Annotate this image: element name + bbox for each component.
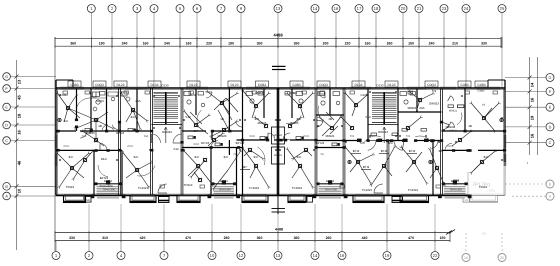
svg-text:240: 240 (429, 41, 435, 45)
wall y=140 seg14 (290, 139, 316, 141)
window left wall 2 (54, 154, 56, 166)
svg-text:G: G (549, 76, 552, 80)
grid bubble 2 (top) (108, 5, 116, 13)
grid line 23 stem (443, 13, 445, 89)
label box C0B3 x458 (458, 81, 471, 87)
wall y=112 seg16 (398, 111, 442, 113)
window top x290 (290, 86, 310, 88)
wall x=212 seg20 (211, 131, 213, 140)
door arc 8 (283, 133, 290, 139)
switch dots (59, 94, 61, 96)
label box C4B3 x475 (475, 81, 488, 87)
svg-text:4Y24: 4Y24 (63, 145, 69, 148)
svg-text:18: 18 (374, 6, 379, 11)
door arc 1 (100, 143, 107, 150)
grid line 21 stem (418, 13, 420, 89)
lamp L26 (350, 126, 353, 129)
grid line 7 stem (220, 13, 222, 89)
svg-text:14: 14 (313, 6, 318, 11)
party wall x=316 (314, 88, 316, 196)
grid line 18 stem (375, 13, 377, 89)
svg-text:D133: D133 (151, 83, 159, 87)
svg-text:21: 21 (417, 6, 422, 11)
row bubble F (right) (546, 87, 554, 95)
svg-text:M0921: M0921 (449, 110, 457, 113)
entrance 4 (x441.5-468) (442, 183, 469, 185)
wall x=94 seg3 (93, 150, 95, 195)
grid bubble 19 (bottom) (383, 252, 391, 260)
grid stem 1 bottom (55, 241, 57, 252)
door arc 21 (442, 125, 450, 130)
svg-text:200: 200 (323, 41, 329, 45)
dimension terminator line x=55 (54, 37, 56, 251)
grid bubble 12 (bottom) (237, 252, 245, 260)
balcony H faint (470, 196, 498, 203)
grid stem 22 bottom (434, 241, 436, 252)
lamp L28 (264, 124, 267, 127)
door arc 20 (316, 121, 323, 127)
svg-text:260: 260 (326, 236, 332, 240)
exterior wall left (55, 80, 57, 196)
label box C0B3 x255.5 (256, 81, 269, 87)
window top x440 (440, 86, 456, 88)
svg-text:(-): (-) (483, 232, 486, 236)
door arc 5 (173, 134, 182, 143)
row leader D left (10, 124, 56, 126)
grid bubble 5 (top) (176, 5, 184, 13)
lamp L10 (196, 164, 199, 167)
svg-text:C0Q3: C0Q3 (96, 99, 104, 103)
party wall x=278 (276, 88, 278, 196)
wall y=140 seg13 (278, 139, 284, 141)
grid stem 12 bottom (240, 241, 242, 252)
label box D123 x228 (228, 81, 241, 87)
grid bubble 16 (top) (332, 5, 340, 13)
svg-text:B7: B7 (243, 165, 247, 169)
svg-text:440: 440 (362, 236, 368, 240)
svg-text:B·g: B·g (432, 89, 437, 93)
grid bubble 16 (bottom) (338, 252, 346, 260)
wall x=76.5 seg5 (76, 88, 78, 120)
window top x186 (186, 86, 208, 88)
exterior wall left inner (56, 88, 58, 196)
grid line 3 stem (136, 13, 138, 89)
wall x=106.5 seg8 (106, 88, 108, 131)
lamp L20 (435, 166, 438, 169)
row bubble B right (faint) (546, 180, 554, 188)
svg-text:23: 23 (442, 6, 447, 11)
grid stem 4 bottom (120, 241, 122, 252)
svg-text:C123: C123 (189, 93, 196, 97)
bottom dimension line upper (55, 232, 450, 234)
grid bubble 24 (top) (462, 5, 470, 13)
svg-text:240: 240 (122, 41, 128, 45)
grid bubble 25 (top) (498, 5, 506, 13)
door arc 14 (206, 92, 212, 98)
svg-text:350: 350 (294, 41, 300, 45)
row bubble C (right) (546, 139, 554, 147)
wall y=150.4 seg5 (56, 149, 94, 151)
lamp L34 (458, 138, 461, 141)
grid bubble 25 bottom (faint) (498, 254, 506, 262)
label box C0B3 x68 (68, 81, 81, 87)
party wall x=182 (180, 88, 182, 196)
outlet underline marks (351, 153, 361, 155)
svg-text:B·F: B·F (484, 155, 489, 159)
svg-text:CMB3: CMB3 (289, 91, 297, 95)
wall y=150.4 seg22 (442, 149, 471, 151)
wall x=242.5 seg0 (242, 88, 244, 196)
bath fixtures unit3 (184, 92, 191, 96)
row leader A left (10, 195, 56, 197)
svg-text:330: 330 (481, 41, 487, 45)
svg-text:360: 360 (70, 41, 76, 45)
svg-text:M0921: M0921 (449, 130, 457, 133)
svg-text:18: 18 (17, 113, 22, 118)
svg-text:150: 150 (408, 41, 414, 45)
svg-text:DW923: DW923 (429, 102, 439, 106)
door arc 13 (90, 92, 96, 98)
row leader G right (505, 77, 546, 79)
svg-text:TC2421: TC2421 (362, 188, 373, 192)
grid line 20 stem (402, 13, 404, 89)
label box C0Q3 x317 (317, 81, 330, 87)
svg-text:4488: 4488 (275, 228, 283, 232)
svg-text:C: C (5, 139, 8, 143)
svg-text:TC2421: TC2421 (138, 186, 149, 190)
left dim ticks (15, 75, 19, 79)
stair landing left (152, 124, 183, 126)
wall y=131 seg2 (120, 130, 152, 132)
grid line 4 stem (153, 13, 155, 89)
svg-text:16: 16 (334, 6, 339, 11)
door arc 6 (211, 141, 218, 148)
exterior wall bottom (56, 195, 468, 197)
svg-text:420: 420 (140, 236, 146, 240)
svg-text:20A: 20A (144, 135, 149, 138)
balcony x242 (242, 196, 268, 203)
svg-text:4Y24: 4Y24 (249, 135, 255, 138)
grid stem 14 bottom (314, 241, 316, 252)
grid line 2 stem (111, 13, 113, 89)
window right wall 2 (503, 154, 505, 166)
wall y=147.5 seg8 (237, 147, 243, 149)
lamp L24 (418, 98, 421, 101)
label box D123 x385 (385, 81, 398, 87)
window bottom x401 (401, 194, 427, 196)
lamp L7 (194, 123, 197, 126)
svg-text:C0B3: C0B3 (292, 83, 300, 87)
svg-text:20: 20 (401, 6, 406, 11)
svg-text:1B: 1B (98, 124, 102, 128)
wall y=131 seg0 (56, 130, 76, 132)
svg-text:160: 160 (186, 41, 192, 45)
entrance door left core (158, 184, 167, 193)
svg-text:24: 24 (464, 256, 468, 260)
meter box right small (307, 197, 313, 203)
extra wiring runs (214, 98, 226, 110)
wall lamp 2 (429, 160, 432, 163)
svg-text:220: 220 (345, 41, 351, 45)
window top x95 (95, 86, 112, 88)
svg-text:C0Q3: C0Q3 (319, 83, 328, 87)
window top x60 (60, 86, 84, 88)
svg-text:330: 330 (69, 236, 75, 240)
lamp L11 (198, 178, 201, 181)
door arc 17 (451, 122, 455, 128)
wall y=140.5 seg19 (416, 140, 430, 142)
svg-text:t: t (527, 161, 528, 165)
grid bubble 20 (top) (399, 5, 407, 13)
svg-text:14: 14 (530, 82, 535, 87)
label box D123 x114 (114, 81, 127, 87)
svg-text:M3: M3 (86, 199, 90, 202)
balcony x177 (177, 196, 200, 203)
row bubble E (right) (546, 103, 554, 111)
lamp L23 (354, 103, 357, 106)
svg-text:20A: 20A (135, 99, 140, 103)
bath fixtures unit6 (318, 92, 325, 96)
svg-text:M0923: M0923 (258, 121, 267, 125)
svg-text:1B·F: 1B·F (101, 157, 107, 161)
svg-text:50×6=300: 50×6=300 (325, 189, 337, 192)
svg-text:360: 360 (294, 236, 300, 240)
grid line 13 stem (277, 13, 279, 89)
grid bubble 2 (bottom) (85, 252, 93, 260)
svg-text:· 1P1 ·: · 1P1 · (487, 189, 498, 193)
svg-text:50×6=300: 50×6=300 (99, 184, 112, 188)
svg-text:14: 14 (313, 253, 318, 258)
grid bubble 22 (bottom) (431, 252, 439, 260)
entry canopy left stair (159, 197, 170, 203)
svg-text:45: 45 (17, 95, 22, 100)
dimension ticks top band (54, 37, 56, 48)
row bubble A (left) (3, 192, 11, 200)
lamp L1 (66, 106, 69, 109)
wall y=140.5 seg17 (316, 140, 360, 142)
window bottom x355 (355, 194, 382, 196)
svg-text:TC919: TC919 (184, 183, 193, 187)
grid bubble 23 (top) (440, 5, 448, 13)
grid stem 19 bottom (386, 241, 388, 252)
wall x=264 seg12 (263, 88, 265, 118)
lamp L27 (406, 126, 409, 129)
grid line 14 stem (314, 13, 316, 89)
row bubble G (left) (3, 73, 11, 81)
row bubble A right (faint) (546, 192, 554, 200)
svg-text:C0B3: C0B3 (258, 83, 266, 87)
wiring runs with arrows (58, 94, 68, 108)
svg-text:B7·B: B7·B (409, 149, 415, 153)
grid line 5 stem (179, 13, 181, 89)
door leaf blobs rooms right (378, 139, 383, 142)
grid line 24 stem (465, 13, 467, 89)
door arc 3 (112, 125, 120, 130)
wall lamp 3 (58, 118, 61, 121)
row leader F left (10, 88, 56, 90)
shaft box M0921 center (272, 147, 285, 164)
grid bubble 7 (bottom) (160, 252, 168, 260)
grid bubble 1 (top) (87, 5, 95, 13)
lamp L33 (304, 148, 307, 151)
door arc 15 (319, 92, 325, 98)
lamp L19 (412, 160, 415, 163)
shaft box M0923 center (272, 127, 285, 144)
grid bubble 17 (top) (355, 5, 363, 13)
svg-text:50×6=300: 50×6=300 (450, 189, 462, 192)
balcony x353 (353, 196, 384, 203)
wall x=91 seg7 (90, 88, 92, 131)
wall y=140 seg12 (274, 139, 278, 141)
exterior wall bottom inner (56, 193, 468, 195)
wall lamp 4 (500, 118, 503, 121)
lamp L31 (212, 138, 215, 141)
window bottom x64 (64, 194, 85, 196)
wall y=147.5 seg7 (182, 147, 211, 149)
svg-text:310: 310 (102, 236, 108, 240)
grid bubble 4 (top) (150, 5, 158, 13)
svg-text:C123: C123 (361, 93, 368, 97)
svg-text:B·F: B·F (439, 149, 444, 153)
grid line 16 stem (335, 13, 337, 89)
svg-text:B·F: B·F (69, 155, 74, 159)
svg-text:D123: D123 (388, 83, 396, 87)
entrance door right core (374, 184, 383, 193)
lamp L13 (254, 164, 257, 167)
wall x=368 seg15 (367, 88, 369, 141)
door arc 19 (236, 121, 243, 127)
svg-text:13: 13 (276, 6, 281, 11)
window bottom x243 (243, 194, 267, 196)
lamp L17 (356, 160, 359, 163)
lamp L32 (248, 148, 251, 151)
svg-text:19: 19 (530, 115, 535, 120)
svg-text:D: D (5, 124, 8, 128)
svg-text:B·F: B·F (134, 155, 139, 159)
centerline symbol (272, 208, 286, 210)
bath fixtures unit4 (246, 92, 253, 96)
wall x=330 seg14 (329, 88, 331, 115)
exterior wall right (504, 80, 506, 162)
door arc 7 (268, 133, 275, 139)
grid line 1 stem (90, 13, 92, 89)
door arc 10 (394, 141, 402, 151)
svg-text:M3: M3 (465, 199, 469, 202)
svg-text:4Y24: 4Y24 (127, 145, 133, 148)
door label boxes mid right (402, 129, 408, 132)
svg-text:M0921: M0921 (408, 106, 417, 110)
window bottom x131 (131, 194, 155, 196)
wall y=131 seg4 (212, 130, 243, 132)
party wall x=151.5 (150, 88, 152, 196)
lamp L15 (298, 164, 301, 167)
wall y=131 seg3 (182, 130, 206, 132)
lamp L12 (254, 104, 257, 107)
svg-text:D123: D123 (117, 83, 125, 87)
svg-text:40Y24: 40Y24 (201, 141, 210, 145)
party wall x=441.5 (440, 88, 442, 196)
entrance 3 (x316-344) (316, 183, 344, 185)
lamp L5 (70, 166, 73, 169)
grid bubble 3 (top) (133, 5, 141, 13)
svg-text:D123: D123 (190, 83, 198, 87)
bath fixtures unit5 (296, 92, 303, 96)
svg-text:C0B3: C0B3 (70, 83, 78, 87)
label box C0Q3 x425 (425, 81, 438, 87)
row leader E right (505, 106, 546, 108)
label box C0Q3 x93 (93, 81, 106, 87)
window right wall 1 (503, 135, 505, 148)
top dimension line lower (55, 45, 501, 47)
grid bubble 13 (top) (274, 5, 282, 13)
lamp L4 (135, 168, 138, 171)
svg-text:B7·B: B7·B (353, 149, 359, 153)
svg-text:17: 17 (357, 6, 362, 11)
door jamb blocks (75, 119, 78, 122)
grid bubble 14 (top) (311, 5, 319, 13)
svg-text:7P17Pq: 7P17Pq (472, 182, 490, 188)
wall x=137 seg9 (136, 88, 138, 131)
door arc 16 (451, 96, 454, 101)
svg-text:M0921: M0921 (326, 134, 335, 138)
grid stem 16 bottom (341, 241, 343, 252)
svg-text:4Y24: 4Y24 (303, 135, 309, 138)
row leader F right (505, 90, 546, 92)
lamp L25 (203, 158, 206, 161)
svg-text:260: 260 (387, 41, 393, 45)
center axis line (277, 88, 279, 214)
lamp L16 (330, 126, 333, 129)
svg-text:50×6=300: 50×6=300 (103, 189, 115, 192)
svg-text:TC1919: TC1919 (249, 186, 260, 190)
grid bubble 1 (bottom) (52, 252, 60, 260)
window top x477 (477, 86, 500, 88)
right dim ticks (528, 76, 532, 80)
svg-text:13: 13 (276, 253, 281, 258)
svg-text:50×6=300: 50×6=300 (219, 189, 231, 192)
meter box M3 right (463, 197, 469, 203)
row leader C right (505, 142, 546, 144)
svg-text:46: 46 (17, 160, 22, 165)
lamp L3 (131, 108, 134, 111)
exterior wall right inner (503, 88, 505, 162)
row bubble C (left) (3, 137, 11, 145)
svg-text:D133: D133 (355, 83, 363, 87)
svg-text:M0921: M0921 (446, 125, 455, 129)
svg-text:S12: S12 (365, 115, 371, 119)
grid bubble 13 (bottom) (274, 252, 282, 260)
row leader G left (10, 76, 56, 78)
stair landing right (368, 124, 398, 126)
svg-text:C: C (549, 141, 552, 145)
svg-text:16: 16 (340, 253, 345, 258)
entrance 2 (x211-236) (211, 183, 237, 185)
svg-text:DW923: DW923 (162, 130, 172, 134)
grid stem 2 bottom (88, 241, 90, 252)
svg-text:E: E (549, 106, 552, 110)
bath fixtures unit7 (400, 92, 407, 96)
svg-text:20A: 20A (82, 135, 87, 138)
svg-text:4Y24: 4Y24 (193, 143, 199, 146)
row bubble B (left) (3, 183, 11, 191)
bottom grid stems to building (88, 204, 90, 231)
row bubble F (left) (3, 85, 11, 93)
meter box M3 left (85, 197, 91, 203)
svg-text:150: 150 (440, 236, 446, 240)
lamp L21 (482, 116, 485, 119)
wall x=229.4 seg10 (228, 88, 230, 131)
wall y=150.4 seg23 (478, 149, 505, 151)
